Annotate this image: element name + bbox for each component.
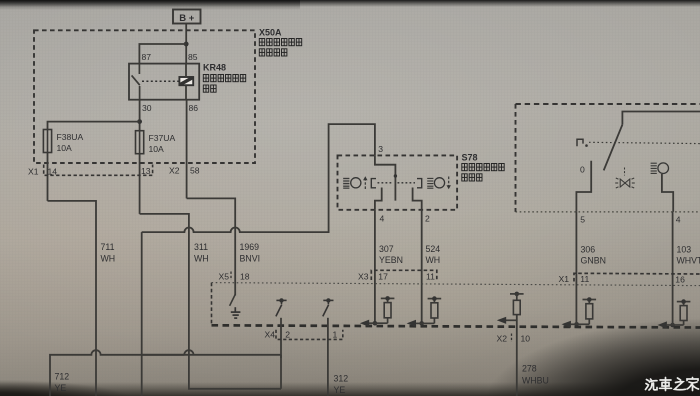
wire pin85 to coil bbox=[185, 64, 187, 77]
svg-text:5: 5 bbox=[580, 215, 585, 225]
mechanical linkage hook bbox=[577, 139, 583, 146]
svg-text:1: 1 bbox=[333, 330, 338, 340]
svg-text:X4: X4 bbox=[265, 330, 276, 340]
svg-text:X5: X5 bbox=[219, 272, 230, 282]
wire branch to pin 87 bbox=[139, 44, 186, 64]
splice unit C (X2/278) bbox=[497, 292, 524, 396]
svg-text:711: 711 bbox=[101, 242, 115, 252]
svg-text:X1: X1 bbox=[559, 274, 570, 284]
svg-text:16: 16 bbox=[675, 275, 685, 285]
svg-text:13: 13 bbox=[141, 166, 151, 176]
wire branch to F38UA bbox=[48, 122, 140, 130]
X4 switch left (pin 2) bbox=[276, 300, 287, 316]
node B+ branch junction bbox=[184, 42, 189, 47]
svg-text:312: 312 bbox=[334, 374, 349, 384]
wire relay 86 down through X2-58 bbox=[186, 100, 188, 199]
svg-text:11: 11 bbox=[426, 272, 435, 282]
S78 left contact bracket bbox=[371, 179, 376, 188]
S78 left up arrow bbox=[363, 176, 367, 189]
svg-text:1969: 1969 bbox=[240, 242, 260, 252]
svg-text:X1: X1 bbox=[28, 167, 39, 177]
mechanical dotted line bbox=[589, 142, 700, 143]
svg-text:X2: X2 bbox=[169, 166, 180, 176]
svg-text:2: 2 bbox=[425, 214, 430, 224]
svg-text:BNVI: BNVI bbox=[240, 254, 261, 264]
S78 left headlamp icon hatch bbox=[343, 178, 349, 189]
svg-text:17: 17 bbox=[378, 272, 388, 282]
svg-text:X3: X3 bbox=[358, 272, 369, 282]
svg-text:F37UA: F37UA bbox=[149, 133, 176, 143]
svg-text:X2: X2 bbox=[497, 334, 508, 344]
S78 right headlamp icon hatch bbox=[427, 178, 433, 188]
svg-text:WH: WH bbox=[426, 255, 441, 265]
svg-text:B +: B + bbox=[179, 13, 195, 24]
svg-text:11: 11 bbox=[580, 274, 589, 284]
label 转向信号/多功 (fake glyphs) bbox=[462, 164, 504, 171]
wire 103 WHVT bbox=[672, 212, 674, 325]
svg-text:58: 58 bbox=[190, 166, 200, 176]
svg-text:4: 4 bbox=[676, 215, 681, 225]
svg-text:X50A: X50A bbox=[259, 28, 282, 38]
wire 1969 BNVI (pin58 jog down to ground switch) bbox=[187, 198, 236, 295]
svg-text:2: 2 bbox=[285, 330, 290, 340]
svg-text:WHBU: WHBU bbox=[522, 376, 549, 386]
svg-text:F38UA: F38UA bbox=[57, 132, 84, 142]
wire horizontal feed to S78 pin 3 (with hops) bbox=[142, 124, 375, 232]
wire F38UA to pin 14 bbox=[47, 153, 49, 201]
svg-text:WHVT: WHVT bbox=[677, 256, 700, 266]
headlamp to pin 4 bbox=[662, 174, 673, 212]
S78 right headlamp icon lens bbox=[434, 178, 444, 188]
connector X4 dashed bracket bbox=[276, 330, 343, 340]
X4 switch right (pin 1) bbox=[323, 300, 334, 316]
wire 712 YE horizontal with hops bbox=[50, 350, 281, 396]
label 发动机舱盖下 (fake glyphs) bbox=[259, 39, 301, 46]
node fuse branch junction bbox=[137, 119, 142, 124]
thin dotted module top line bbox=[212, 283, 700, 286]
label 电器 (fake glyphs) bbox=[203, 85, 216, 92]
headlamp icon right box bbox=[651, 163, 657, 173]
fuse F37UA 10A bbox=[136, 131, 144, 154]
svg-text:KR48: KR48 bbox=[203, 63, 226, 73]
svg-text:87: 87 bbox=[142, 52, 152, 62]
svg-text:14: 14 bbox=[48, 167, 58, 177]
S78 right contact bracket bbox=[417, 179, 422, 188]
svg-text:WH: WH bbox=[194, 254, 209, 264]
svg-text:10A: 10A bbox=[149, 144, 165, 154]
svg-text:524: 524 bbox=[426, 244, 441, 254]
wire 312 YE down from X4 pin1 bbox=[327, 318, 329, 396]
svg-text:30: 30 bbox=[142, 103, 152, 113]
S78 dotted linkage bbox=[378, 182, 394, 184]
wire 306 GNBN bbox=[575, 212, 577, 324]
wire 524 WH bbox=[421, 210, 423, 324]
label 前照灯远光继 (fake glyphs) bbox=[203, 75, 245, 82]
connector X1 dashed bracket (right) bbox=[574, 273, 700, 281]
fuse box X50A dashed enclosure bbox=[34, 30, 255, 163]
svg-text:YE: YE bbox=[55, 383, 67, 393]
svg-text:WH: WH bbox=[101, 254, 116, 264]
svg-text:311: 311 bbox=[194, 242, 208, 252]
wire unnamed drop at 141.7 bbox=[141, 232, 143, 396]
svg-text:YE: YE bbox=[334, 385, 346, 395]
S78 right down arrow bbox=[447, 177, 451, 190]
svg-text:10A: 10A bbox=[57, 143, 73, 153]
svg-text:103: 103 bbox=[677, 245, 692, 255]
X4 pin2 wire down bbox=[280, 318, 282, 389]
S78 left terminal cup to pin 4 bbox=[375, 188, 382, 210]
ground switch on 1969 bbox=[230, 295, 236, 306]
headlamp switch dashed box (right) bbox=[516, 103, 700, 105]
splice unit A (307) arrow + element bbox=[360, 296, 395, 327]
relay coil KR48 bbox=[179, 77, 193, 85]
high-beam indicator icon bbox=[615, 168, 635, 189]
S78 dashed switch box bbox=[338, 155, 458, 209]
svg-text:10: 10 bbox=[521, 334, 531, 344]
wire B+ down to relay bbox=[185, 24, 187, 64]
svg-text:85: 85 bbox=[188, 52, 198, 62]
splice unit D (306) bbox=[562, 297, 597, 328]
svg-text:307: 307 bbox=[379, 244, 394, 254]
ground symbol bbox=[231, 307, 241, 318]
wire coil to pin86 bbox=[185, 85, 187, 99]
svg-text:YEBN: YEBN bbox=[379, 255, 403, 265]
relay mechanical dashed link bbox=[142, 80, 179, 82]
label 能开关 (fake glyphs) bbox=[462, 174, 482, 181]
S78 left headlamp icon lens bbox=[351, 178, 361, 188]
S78 right terminal cup to pin 2 bbox=[413, 188, 422, 210]
svg-text:GNBN: GNBN bbox=[581, 256, 606, 266]
connector X5 labels bbox=[230, 272, 232, 281]
wire 307 YEBN bbox=[374, 210, 376, 323]
relay KR48 box bbox=[129, 64, 199, 100]
svg-text:18: 18 bbox=[240, 272, 250, 282]
wire pin30 down bbox=[139, 100, 141, 131]
battery feed B+ terminal box bbox=[173, 10, 201, 24]
S78 common post from pin 3 bbox=[375, 155, 396, 200]
svg-text:4: 4 bbox=[380, 214, 385, 224]
svg-text:3: 3 bbox=[378, 144, 383, 154]
svg-text:0: 0 bbox=[580, 165, 585, 175]
feed wire from right edge into switch blade bbox=[622, 112, 700, 125]
ground module dashed edge (left) bbox=[211, 283, 213, 326]
wire F37UA to pin 13 bbox=[139, 154, 141, 214]
connector X3 dashed bracket bbox=[371, 270, 437, 280]
watermark 汽车之家 (fake white glyphs) bbox=[646, 378, 699, 391]
svg-text:86: 86 bbox=[189, 103, 199, 113]
fuse F38UA 10A bbox=[43, 130, 51, 153]
switch blade bbox=[604, 125, 623, 171]
label 保险丝盒 (fake glyphs) bbox=[259, 49, 287, 56]
svg-text:S78: S78 bbox=[462, 153, 478, 163]
splice unit B (524) bbox=[407, 296, 442, 327]
svg-text:712: 712 bbox=[55, 372, 70, 382]
svg-text:306: 306 bbox=[581, 245, 596, 255]
svg-text:278: 278 bbox=[522, 364, 537, 374]
relay switch blade bbox=[132, 64, 140, 100]
splice unit E (103) bbox=[658, 299, 691, 328]
main dashed ground bus bbox=[212, 325, 700, 327]
wire 311 WH (pin13 jog down) bbox=[140, 214, 281, 389]
wire 711 WH (fuse 14 to bottom) bbox=[48, 201, 97, 396]
